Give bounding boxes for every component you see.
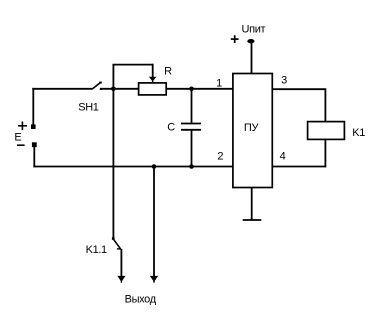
svg-text:Uпит: Uпит [242, 24, 266, 36]
svg-text:K1: K1 [352, 127, 365, 139]
svg-text:1: 1 [216, 77, 222, 89]
svg-text:4: 4 [280, 151, 286, 163]
svg-text:3: 3 [281, 74, 287, 86]
svg-text:Выход: Выход [125, 294, 157, 306]
svg-text:E: E [14, 131, 21, 143]
svg-text:R: R [164, 66, 172, 78]
svg-text:C: C [167, 122, 175, 134]
svg-text:K1.1: K1.1 [86, 244, 107, 256]
svg-text:2: 2 [217, 150, 223, 162]
svg-text:SH1: SH1 [78, 101, 99, 113]
svg-text:ПУ: ПУ [244, 122, 260, 134]
